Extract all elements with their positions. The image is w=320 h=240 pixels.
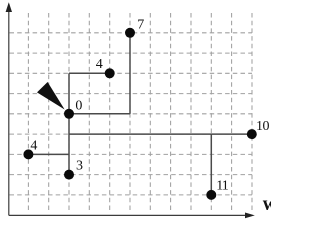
path: vertical segment from corner above 0 down to node 3 (68, 73, 70, 174)
x-axis arrowhead (245, 213, 255, 219)
path: horizontal segment row of node 4 (69, 72, 110, 74)
path: horizontal segment from left node 4 to main vertical (28, 153, 69, 155)
path: vertical segment down to node 11 (210, 134, 212, 195)
path: horizontal segment from node 0 to column of node 7 (69, 113, 130, 115)
svg-text:w: w (263, 194, 271, 215)
svg-text:4: 4 (96, 57, 103, 72)
x-axis (9, 214, 252, 216)
node 10 (247, 129, 257, 139)
node 4 left (23, 149, 33, 159)
node 4 (105, 68, 115, 78)
path: long horizontal segment to node 10 (69, 133, 252, 135)
svg-text:3: 3 (76, 159, 83, 174)
svg-text:0: 0 (75, 98, 82, 113)
svg-text:4: 4 (30, 138, 37, 153)
node 3 (64, 170, 74, 180)
y-axis arrowhead (6, 2, 12, 12)
grid horizontal dashed lines (10, 33, 253, 195)
grid vertical dashed lines (28, 13, 252, 211)
svg-text:11: 11 (216, 178, 228, 193)
svg-text:7: 7 (137, 17, 144, 32)
flag triangle pointing at node 0 (37, 82, 65, 110)
svg-text:10: 10 (256, 119, 270, 134)
y-axis (8, 4, 10, 215)
path: vertical segment up to node 7 (129, 33, 131, 114)
node 11 (206, 190, 216, 200)
node 0 (64, 109, 74, 119)
node 7 (125, 28, 135, 38)
